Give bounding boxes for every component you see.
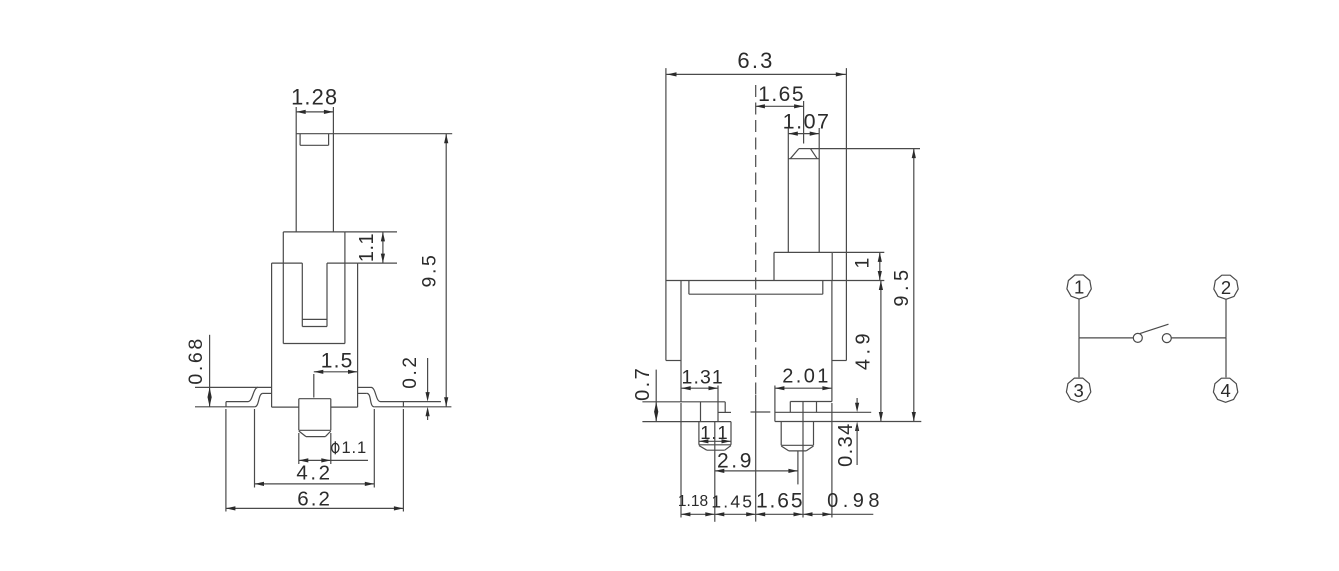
- svg-text:1.45: 1.45: [711, 491, 754, 511]
- dimension 0.34 lead thickness: [835, 398, 859, 467]
- svg-text:2.9: 2.9: [717, 450, 754, 473]
- svg-text:1.65: 1.65: [758, 83, 805, 106]
- middle view outer shell: [666, 68, 847, 360]
- dimension 9.5 overall height (middle view): [810, 149, 920, 422]
- dimension 2.01 right lead length: [775, 366, 832, 391]
- svg-text:2.01: 2.01: [782, 366, 831, 388]
- dimension 1 shoulder height: [832, 252, 884, 280]
- dimension 6.2 overall width (left view): [226, 409, 404, 512]
- dimension 2.9 pin pitch: [715, 422, 798, 522]
- svg-text:9.5: 9.5: [418, 253, 440, 288]
- left view plunger cap inset: [300, 134, 329, 146]
- svg-text:1.5: 1.5: [321, 350, 354, 373]
- svg-text:1.07: 1.07: [783, 110, 831, 134]
- wire right contact to node B: [1171, 337, 1226, 339]
- middle view right lead and solder pin: [775, 386, 921, 518]
- wire node A to terminal 3: [1078, 338, 1080, 377]
- bottom chained dimensions 1.18 / 1.45 / 1.65 / 0.98: [678, 403, 884, 518]
- dimension 6.3 shell width: [667, 48, 845, 77]
- middle view: front elevation of detector switch: [632, 48, 921, 522]
- left view: side elevation of detector switch: [185, 84, 452, 511]
- svg-text:1: 1: [852, 255, 874, 268]
- svg-text:0.98: 0.98: [827, 490, 884, 512]
- terminal 1 balloon: [1067, 275, 1091, 299]
- dimension 0.2 foot thickness: [400, 354, 430, 420]
- dimension 0.7 left lead height: [632, 366, 658, 422]
- left view plunger shaft: [296, 107, 333, 232]
- svg-text:4.2: 4.2: [296, 462, 332, 485]
- svg-text:2: 2: [1221, 277, 1231, 298]
- dimension 4.2 pad span: [255, 409, 375, 488]
- left view body outline: [272, 263, 358, 407]
- terminal 2 balloon: [1214, 275, 1238, 299]
- dimension 1.1 left pin width: [699, 422, 731, 444]
- terminal 3 balloon: [1066, 378, 1090, 402]
- middle view left lead and solder pin: [642, 386, 731, 451]
- left view flange block: [283, 232, 345, 344]
- left view U-slot cavity: [302, 263, 327, 326]
- wire terminal 1 to node A: [1078, 299, 1080, 338]
- svg-text:1.65: 1.65: [756, 489, 804, 512]
- svg-text:9.5: 9.5: [891, 265, 913, 306]
- svg-text:6.3: 6.3: [737, 48, 774, 73]
- svg-text:1: 1: [1074, 277, 1084, 298]
- wire node A to left contact: [1079, 337, 1133, 339]
- dimension 9.5 overall height (left view): [333, 134, 452, 407]
- dimension 1.28 plunger width: [291, 84, 338, 114]
- svg-text:6.2: 6.2: [297, 487, 332, 510]
- wire terminal 2 to node B: [1225, 300, 1227, 338]
- middle view inner step rectangle: [689, 281, 823, 295]
- svg-text:0.2: 0.2: [400, 354, 421, 388]
- dimension 0.68 foot height: [185, 335, 212, 407]
- svg-text:1.1: 1.1: [356, 233, 378, 262]
- dimension 4.9 body height: [846, 281, 884, 422]
- middle view plunger shaft with domed tip: [788, 128, 819, 252]
- dimension 1.65 plunger offset (top): [755, 83, 805, 144]
- dimension 1.07 plunger width: [783, 110, 831, 136]
- terminal 4 balloon: [1213, 378, 1237, 402]
- svg-text:1.31: 1.31: [682, 366, 724, 388]
- dimension 1.1 flange height: [345, 232, 397, 263]
- left view left mounting foot (gull-wing): [195, 387, 272, 406]
- svg-text:4: 4: [1220, 380, 1230, 401]
- left view locating pin with chamfered tip: [299, 399, 331, 437]
- svg-text:0.34: 0.34: [835, 422, 857, 467]
- svg-text:1.28: 1.28: [291, 84, 338, 109]
- svg-text:3: 3: [1073, 380, 1083, 401]
- middle view body sides: [681, 281, 832, 402]
- dimension phi 1.1 pin diameter: [299, 433, 368, 464]
- left view right mounting foot (gull-wing): [358, 387, 452, 406]
- centre line (dashed) of middle view: [751, 85, 771, 522]
- svg-text:4.9: 4.9: [853, 329, 875, 370]
- right contact of switch: [1162, 334, 1171, 343]
- wire node B to terminal 4: [1225, 338, 1227, 378]
- dimension 1.5 pin offset: [314, 350, 358, 398]
- svg-text:1.18: 1.18: [678, 493, 708, 510]
- left contact of switch: [1133, 333, 1142, 342]
- middle view plunger shoulder block: [774, 252, 832, 280]
- svg-text:0.7: 0.7: [632, 366, 654, 401]
- svg-text:0.68: 0.68: [185, 336, 207, 384]
- circuit schematic of switch contacts: [1066, 275, 1238, 402]
- svg-text:1.1: 1.1: [341, 439, 367, 457]
- switch lever (open): [1140, 324, 1169, 333]
- dimension 1.31 left lead position: [681, 366, 724, 390]
